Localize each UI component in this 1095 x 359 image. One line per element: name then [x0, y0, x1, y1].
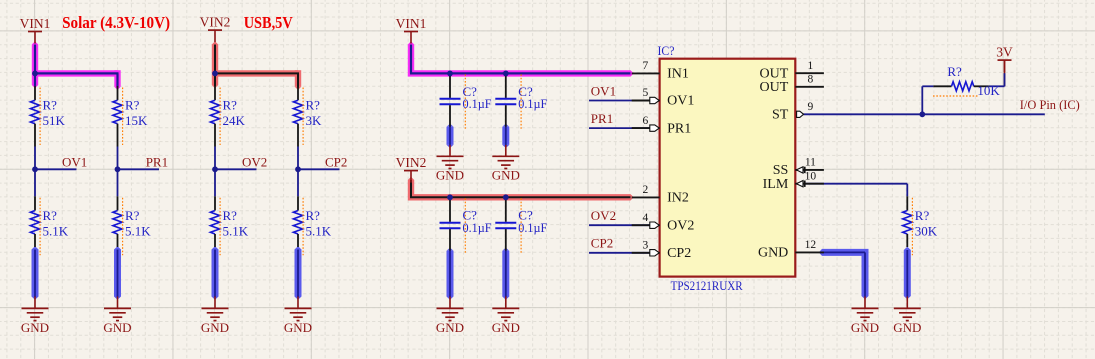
- svg-text:OV1: OV1: [62, 154, 87, 169]
- svg-text:10: 10: [805, 170, 817, 182]
- svg-text:GND: GND: [436, 168, 464, 183]
- svg-text:9: 9: [808, 101, 814, 113]
- svg-text:R?: R?: [223, 208, 238, 223]
- svg-text:GND: GND: [492, 168, 520, 183]
- svg-text:PR1: PR1: [667, 121, 691, 136]
- svg-text:OV1: OV1: [667, 94, 694, 109]
- svg-text:CP2: CP2: [667, 246, 691, 261]
- svg-text:R?: R?: [223, 98, 238, 113]
- svg-text:R?: R?: [43, 208, 58, 223]
- svg-text:OV1: OV1: [591, 83, 616, 98]
- svg-text:R?: R?: [947, 64, 962, 79]
- svg-text:OV2: OV2: [591, 208, 616, 223]
- svg-text:IN1: IN1: [667, 67, 689, 82]
- svg-text:R?: R?: [915, 208, 930, 223]
- svg-text:5.1K: 5.1K: [43, 224, 69, 239]
- svg-text:6: 6: [643, 115, 649, 127]
- svg-text:GND: GND: [851, 320, 879, 335]
- svg-text:GND: GND: [492, 320, 520, 335]
- svg-text:1: 1: [808, 60, 814, 72]
- svg-text:R?: R?: [306, 98, 321, 113]
- svg-text:GND: GND: [758, 246, 788, 261]
- svg-text:3V: 3V: [996, 45, 1013, 60]
- svg-text:5.1K: 5.1K: [306, 224, 332, 239]
- svg-text:0.1µF: 0.1µF: [518, 96, 547, 111]
- svg-text:Solar (4.3V-10V): Solar (4.3V-10V): [62, 13, 170, 32]
- svg-text:VIN1: VIN1: [20, 16, 51, 31]
- svg-text:GND: GND: [201, 320, 229, 335]
- svg-text:8: 8: [808, 74, 814, 86]
- svg-text:ILM: ILM: [763, 177, 789, 192]
- svg-text:3K: 3K: [306, 113, 323, 128]
- svg-text:IN2: IN2: [667, 191, 689, 206]
- svg-text:CP2: CP2: [591, 236, 613, 251]
- svg-text:VIN2: VIN2: [396, 155, 427, 170]
- svg-text:OV2: OV2: [667, 218, 694, 233]
- svg-text:VIN2: VIN2: [200, 15, 231, 30]
- svg-text:10K: 10K: [977, 83, 1000, 98]
- svg-text:USB,5V: USB,5V: [244, 13, 293, 32]
- svg-text:I/O Pin (IC): I/O Pin (IC): [1020, 97, 1080, 112]
- svg-text:0.1µF: 0.1µF: [463, 220, 492, 235]
- svg-text:51K: 51K: [43, 113, 66, 128]
- svg-text:GND: GND: [436, 320, 464, 335]
- svg-text:OV2: OV2: [242, 154, 267, 169]
- svg-text:PR1: PR1: [591, 111, 613, 126]
- svg-text:5.1K: 5.1K: [125, 224, 151, 239]
- svg-text:GND: GND: [284, 320, 312, 335]
- svg-text:GND: GND: [103, 320, 131, 335]
- svg-text:ST: ST: [772, 108, 789, 123]
- svg-text:R?: R?: [306, 208, 321, 223]
- svg-text:5.1K: 5.1K: [223, 224, 249, 239]
- svg-text:GND: GND: [893, 320, 921, 335]
- svg-text:VIN1: VIN1: [396, 16, 427, 31]
- svg-text:3: 3: [643, 240, 649, 252]
- svg-text:7: 7: [643, 60, 649, 72]
- svg-text:12: 12: [805, 239, 817, 251]
- svg-text:30K: 30K: [915, 224, 938, 239]
- svg-text:R?: R?: [43, 98, 58, 113]
- svg-text:5: 5: [643, 87, 649, 99]
- svg-text:R?: R?: [125, 208, 140, 223]
- svg-text:2: 2: [643, 184, 649, 196]
- svg-text:0.1µF: 0.1µF: [518, 220, 547, 235]
- svg-text:24K: 24K: [223, 113, 246, 128]
- svg-text:15K: 15K: [125, 113, 148, 128]
- svg-text:4: 4: [643, 212, 649, 224]
- svg-text:0.1µF: 0.1µF: [463, 96, 492, 111]
- svg-text:GND: GND: [21, 320, 49, 335]
- svg-text:TPS2121RUXR: TPS2121RUXR: [671, 278, 743, 293]
- svg-text:CP2: CP2: [325, 154, 347, 169]
- svg-text:SS: SS: [773, 163, 789, 178]
- svg-text:R?: R?: [125, 98, 140, 113]
- svg-text:IC?: IC?: [658, 43, 675, 58]
- svg-text:11: 11: [805, 157, 816, 169]
- svg-text:PR1: PR1: [146, 154, 168, 169]
- svg-text:OUT: OUT: [760, 80, 789, 95]
